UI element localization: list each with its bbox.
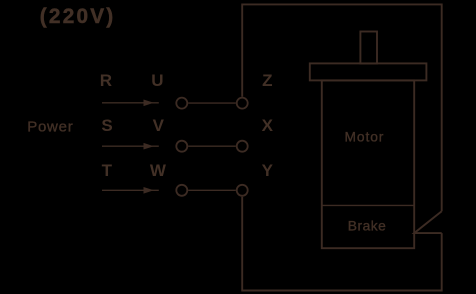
motor body M1 — [322, 80, 414, 248]
wire: notch pointing to brake (diagonal lead-in) — [414, 211, 442, 233]
svg-text:U: U — [151, 71, 163, 90]
wire: supply arrow into terminal W (phase T) — [102, 187, 159, 194]
svg-text:Power: Power — [27, 118, 73, 135]
terminal U (circle) — [176, 98, 187, 109]
svg-text:Motor: Motor — [345, 130, 385, 145]
terminal V (circle) — [176, 141, 187, 152]
wire: supply arrow into terminal U (phase R) — [102, 100, 159, 107]
wire: down right side, across enclosure bottom, up to terminal Y — [242, 197, 442, 291]
terminal Y (circle) — [237, 185, 248, 196]
wire: jumper link W-Y — [188, 189, 236, 191]
brake separator line — [322, 204, 414, 206]
svg-text:Brake: Brake — [348, 219, 387, 234]
svg-text:Y: Y — [262, 161, 274, 180]
wire: jumper link U-Z — [188, 102, 236, 104]
terminal X (circle) — [237, 141, 248, 152]
wire: jumper link V-X — [188, 145, 236, 147]
motor shaft — [360, 32, 377, 64]
wire: from terminal Z up, across enclosure top, down right side — [242, 4, 442, 211]
svg-text:T: T — [102, 161, 113, 180]
svg-text:R: R — [100, 71, 112, 90]
svg-text:S: S — [101, 116, 112, 135]
terminal Z (circle) — [237, 98, 248, 109]
svg-text:X: X — [262, 116, 274, 135]
svg-text:Z: Z — [262, 71, 272, 90]
svg-text:V: V — [153, 116, 165, 135]
svg-text:W: W — [150, 161, 167, 180]
svg-text:(220V): (220V) — [40, 5, 116, 28]
wire: supply arrow into terminal V (phase S) — [102, 143, 159, 150]
motor flange — [310, 63, 427, 80]
terminal W (circle) — [176, 185, 187, 196]
